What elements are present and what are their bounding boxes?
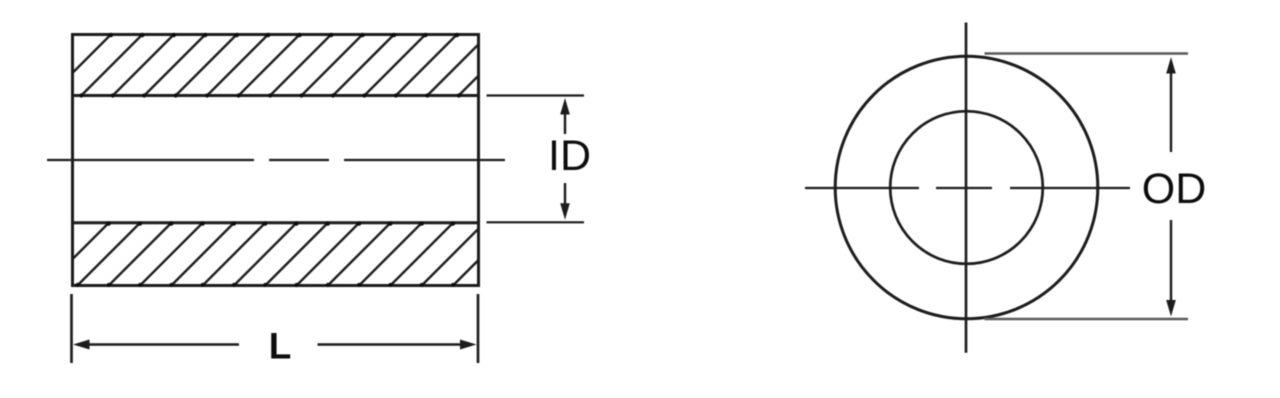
ID top extension line [487, 94, 585, 96]
L left extension line [70, 294, 73, 363]
L dimension line right segment [318, 343, 464, 345]
inner circle (bore) [890, 111, 1043, 264]
svg-text:OD: OD [1142, 165, 1207, 213]
L right extension line [477, 294, 480, 363]
section view outline (left view body) [73, 35, 479, 286]
bore bottom edge [71, 221, 480, 224]
hatch top band [45, 30, 524, 100]
ID upper arrowhead [560, 98, 570, 115]
hatch junction dots, bottom band bottom edge [75, 283, 455, 287]
ID bottom extension line [487, 221, 585, 223]
hatch junction dots, top band bottom edge [79, 93, 461, 97]
OD upper arrowhead [1166, 57, 1176, 74]
hatch bottom band [42, 218, 521, 290]
outer circle (OD) [835, 56, 1098, 319]
ID dimension line upper segment [564, 111, 566, 134]
OD bottom extension line [985, 318, 1189, 321]
L dimension line left segment [86, 343, 239, 345]
hatch junction dots, top band top edge [109, 33, 460, 38]
OD dimension line upper segment [1170, 70, 1172, 152]
hatch junction dots, bottom band top edge [106, 221, 455, 226]
bore top edge [71, 94, 480, 97]
ID lower arrowhead [560, 203, 570, 220]
OD dimension line lower segment [1170, 220, 1172, 302]
right view vertical centerline [965, 23, 968, 353]
ID dimension line lower segment [564, 183, 566, 207]
svg-text:ID: ID [548, 132, 591, 180]
OD lower arrowhead [1166, 300, 1176, 317]
right view horizontal centerline (dashed) [805, 187, 1131, 189]
L left arrowhead [73, 340, 90, 350]
L right arrowhead [460, 340, 477, 350]
OD top extension line [985, 52, 1189, 55]
left view horizontal centerline (dash-dot) [47, 159, 505, 161]
svg-text:L: L [269, 326, 292, 367]
